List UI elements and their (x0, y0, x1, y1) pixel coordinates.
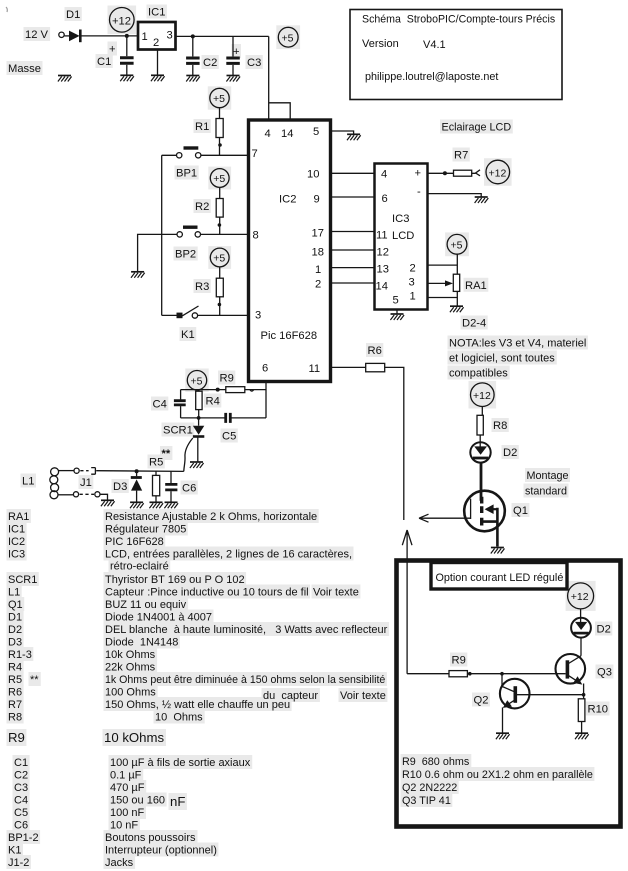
resistor R5 (155, 471, 157, 475)
diode D3 (136, 471, 138, 476)
wire sensor line (96, 470, 184, 473)
svg-text:4: 4 (381, 169, 387, 181)
svg-text:R6: R6 (368, 345, 382, 357)
svg-text:+: + (415, 168, 422, 180)
ground (149, 502, 163, 508)
node +12 (471, 383, 495, 407)
regulator IC1 (138, 22, 176, 50)
svg-text:Version: Version (362, 38, 399, 50)
wire R9 to pin6 line (245, 389, 266, 391)
svg-text:DEL blanche à haute luminosit: DEL blanche à haute luminosité, 3 Watts … (105, 624, 388, 636)
svg-text:18: 18 (312, 247, 324, 259)
svg-text:J1: J1 (80, 477, 92, 489)
ground (130, 502, 144, 508)
svg-text:R4: R4 (206, 396, 220, 408)
svg-text:V4.1: V4.1 (423, 39, 446, 51)
svg-text:1: 1 (142, 31, 148, 43)
ground (226, 76, 240, 82)
ground (101, 500, 115, 506)
svg-text:IC1: IC1 (8, 524, 25, 536)
node +5 (R1) (210, 88, 229, 107)
node +5 (RA1) (447, 234, 467, 254)
LED D2 (571, 618, 591, 638)
svg-text:+12: +12 (489, 167, 507, 179)
svg-text:et logiciel, sont toutes: et logiciel, sont toutes (449, 353, 555, 365)
OPTION BOX (397, 561, 621, 827)
ground (450, 306, 464, 312)
svg-text:1: 1 (410, 291, 416, 303)
jack J1 (58, 470, 74, 472)
svg-text:Diode 1N4148: Diode 1N4148 (105, 637, 178, 649)
wire R6 down to arrows (385, 367, 404, 520)
svg-text:PIC 16F628: PIC 16F628 (105, 536, 164, 548)
wire (64, 35, 69, 37)
svg-text:12: 12 (377, 247, 389, 259)
svg-text:R2: R2 (195, 201, 209, 213)
svg-text:Jacks: Jacks (105, 857, 134, 869)
PIC microcontroller IC2 (249, 120, 361, 382)
svg-text:Voir texte: Voir texte (313, 587, 359, 599)
wire IC3.2 to RA1 top (428, 254, 458, 274)
svg-text:D2: D2 (503, 447, 517, 459)
node +12 (486, 160, 510, 184)
svg-text:compatibles: compatibles (449, 368, 508, 380)
STANDARD LED DRIVER (464, 383, 568, 554)
svg-text:IC2: IC2 (279, 194, 296, 206)
svg-text:Schéma StroboPIC/Compte-tours: Schéma StroboPIC/Compte-tours Précis (362, 14, 555, 26)
svg-text:3: 3 (167, 30, 173, 42)
svg-text:SCR1: SCR1 (8, 574, 37, 586)
svg-text:D2: D2 (8, 624, 22, 636)
wire Q2 collector (501, 674, 503, 687)
svg-text:+5: +5 (213, 93, 225, 105)
svg-text:Q3: Q3 (597, 667, 612, 679)
svg-text:D2: D2 (597, 624, 611, 636)
push-button BP1 (177, 153, 182, 158)
wire arrow up from option (402, 530, 412, 674)
svg-text:+: + (109, 44, 116, 56)
wire R2 to pin8 (219, 217, 221, 234)
svg-text:Q1: Q1 (513, 505, 528, 517)
svg-text:R7: R7 (8, 699, 22, 711)
svg-text:3: 3 (409, 277, 415, 289)
ground (496, 733, 510, 739)
svg-text:0.1 µF: 0.1 µF (110, 770, 142, 782)
svg-text:D2-4: D2-4 (462, 318, 486, 330)
svg-text:9: 9 (314, 194, 320, 206)
svg-text:Interrupteur (optionnel): Interrupteur (optionnel) (105, 845, 217, 857)
svg-text:BUZ 11 ou equiv: BUZ 11 ou equiv (105, 599, 187, 611)
wire R1 to pin7 (219, 138, 221, 156)
ground (151, 75, 165, 81)
svg-text:+12: +12 (112, 15, 131, 27)
capacitor C6 (170, 471, 172, 483)
wire IC1 pin2 to ground (157, 50, 159, 75)
svg-text:IC3: IC3 (392, 213, 409, 225)
svg-text:Voir texte: Voir texte (340, 690, 386, 702)
ground (190, 462, 204, 468)
wire +12 to D2 (580, 609, 582, 622)
svg-text:Q3 TIP 41: Q3 TIP 41 (402, 795, 451, 807)
capacitor C5 (226, 413, 231, 423)
svg-text:Masse: Masse (8, 63, 41, 75)
svg-text:C5: C5 (222, 431, 236, 443)
svg-text:2: 2 (315, 279, 321, 291)
svg-text:Montage: Montage (527, 470, 569, 482)
svg-text:6: 6 (382, 193, 388, 205)
svg-text:L1: L1 (8, 587, 20, 599)
wire backlight - to ground (428, 194, 482, 197)
svg-text:R9 680 ohms: R9 680 ohms (402, 756, 470, 768)
svg-text:C1: C1 (97, 56, 111, 68)
svg-text:7: 7 (252, 148, 258, 160)
MIDDLE SECTION (22, 345, 471, 674)
ground (58, 76, 72, 82)
svg-text:22k Ohms: 22k Ohms (105, 662, 156, 674)
ground (131, 272, 145, 278)
title frame (431, 563, 567, 590)
svg-text:14: 14 (281, 128, 293, 140)
wire pin3 (162, 314, 248, 316)
svg-text:5: 5 (313, 126, 319, 138)
svg-text:philippe.loutrel@laposte.net: philippe.loutrel@laposte.net (365, 71, 498, 83)
svg-text:R5: R5 (8, 674, 22, 686)
capacitor C3 (232, 36, 234, 56)
resistor R6 (366, 363, 385, 371)
svg-text:rétro-eclairé: rétro-eclairé (110, 561, 169, 573)
resistor R3 (219, 267, 221, 278)
wire pin6 down (265, 382, 267, 418)
svg-text:1: 1 (315, 264, 321, 276)
svg-text:IC3: IC3 (8, 549, 25, 561)
svg-text:+5: +5 (282, 32, 294, 44)
node +5 (R2) (210, 169, 229, 188)
resistor R10 (578, 699, 585, 722)
wire +5 rail (176, 35, 269, 37)
svg-text:SCR1: SCR1 (163, 425, 193, 437)
wire IC2.2 to IC3.14 (331, 282, 375, 284)
svg-text:K1: K1 (181, 329, 195, 341)
svg-text:3: 3 (255, 310, 261, 322)
svg-text:150 Ohms, ½ watt elle chauffe: 150 Ohms, ½ watt elle chauffe un peu (105, 699, 290, 711)
svg-text:+: + (233, 46, 240, 58)
wire IC2.11 to R6 (331, 366, 366, 368)
svg-text:Régulateur 7805: Régulateur 7805 (105, 524, 186, 536)
svg-text:NOTA:les V3 et V4, materiel: NOTA:les V3 et V4, materiel (449, 338, 586, 350)
svg-text:D1: D1 (66, 9, 80, 21)
svg-text:-: - (417, 186, 421, 198)
ground (390, 314, 404, 320)
svg-text:standard: standard (525, 486, 567, 498)
svg-text:R10 0.6 ohm ou 2X1.2 ohm en pa: R10 0.6 ohm ou 2X1.2 ohm en parallèle (402, 769, 593, 781)
wire +5 down to IC2 pins 4/14 (269, 36, 291, 119)
svg-text:R10: R10 (588, 704, 609, 716)
LCD module IC3 (331, 122, 587, 380)
wire IC3.5 to ground (396, 310, 398, 314)
wire left rail (161, 155, 163, 315)
node +12 (568, 583, 594, 609)
svg-text:C2: C2 (203, 57, 217, 69)
svg-text:C4: C4 (153, 399, 167, 411)
transistor Q3 (556, 654, 586, 684)
wire backlight + (428, 172, 454, 174)
svg-text:R4: R4 (8, 662, 22, 674)
svg-text:10 kOhms: 10 kOhms (104, 730, 165, 745)
svg-text:R1: R1 (195, 121, 209, 133)
wire IC2.1 to IC3.13 (331, 267, 375, 269)
wire R8 to D2 (479, 435, 481, 447)
wire R9 to base (467, 673, 565, 675)
svg-text:Pic 16F628: Pic 16F628 (261, 330, 318, 342)
svg-text:100 Ohms: 100 Ohms (105, 687, 156, 699)
wire arrow to Q1 gate (419, 514, 471, 522)
thyristor SCR1 (198, 418, 200, 426)
svg-text:150 ou 160: 150 ou 160 (110, 795, 165, 807)
svg-text:Q1: Q1 (8, 599, 23, 611)
svg-text:2: 2 (153, 37, 159, 49)
svg-text:D1: D1 (8, 612, 22, 624)
node +5 (R3) (210, 248, 229, 267)
wire pin7 (162, 154, 248, 156)
wire IC2.17 to IC3.11 (331, 231, 375, 233)
svg-text:**: ** (30, 674, 39, 686)
wire SCR1 gate (184, 438, 193, 471)
svg-text:C2: C2 (14, 770, 28, 782)
wire IC2.18 to IC3.12 (331, 249, 375, 251)
wire bottom loop (181, 417, 266, 419)
svg-text:D3: D3 (113, 481, 127, 493)
svg-text:Q2: Q2 (474, 695, 489, 707)
svg-text:+5: +5 (213, 173, 225, 185)
wire junction (191, 34, 195, 38)
wire Q2 base to emitter of Q3 (517, 694, 584, 696)
svg-text:C5: C5 (14, 807, 28, 819)
ground (575, 733, 589, 739)
svg-text:6: 6 (262, 363, 268, 375)
svg-text:17: 17 (312, 228, 324, 240)
svg-text:10 Ohms: 10 Ohms (155, 712, 203, 724)
svg-text:5: 5 (393, 295, 399, 307)
svg-text:R6: R6 (8, 687, 22, 699)
wire (472, 170, 480, 176)
svg-text:10k Ohms: 10k Ohms (105, 649, 156, 661)
resistor R9 (226, 387, 245, 393)
svg-text:13: 13 (377, 264, 389, 276)
wire R3 to pin3 (219, 297, 221, 316)
svg-text:Boutons poussoirs: Boutons poussoirs (105, 832, 196, 844)
ground (120, 75, 134, 81)
svg-text:C4: C4 (14, 795, 28, 807)
svg-text:C3: C3 (14, 782, 28, 794)
capacitor C1 (126, 36, 128, 56)
diode D1 (69, 31, 80, 42)
resistor R8 (481, 407, 483, 416)
svg-text:BP2: BP2 (175, 249, 196, 261)
svg-text:R3: R3 (195, 281, 209, 293)
input terminal (59, 32, 64, 37)
svg-text:+5: +5 (191, 375, 203, 387)
node +5 (278, 27, 298, 47)
title box (350, 10, 562, 100)
resistor R9 (449, 671, 467, 677)
wire IC3.3 wiper arrow (428, 282, 448, 284)
svg-text:11: 11 (309, 363, 321, 375)
svg-text:BP1-2: BP1-2 (8, 832, 39, 844)
svg-text:+5: +5 (213, 253, 225, 265)
svg-text:C3: C3 (247, 57, 261, 69)
transistor Q2 (500, 679, 530, 709)
push-button BP2 (177, 232, 182, 237)
svg-text:RA1: RA1 (8, 511, 29, 523)
svg-text:C1: C1 (14, 757, 28, 769)
svg-text:Thyristor BT 169 ou P O 102: Thyristor BT 169 ou P O 102 (105, 574, 245, 586)
wire to ground (138, 234, 162, 271)
svg-text:Diode 1N4001 à 4007: Diode 1N4001 à 4007 (105, 612, 212, 624)
svg-text:R8: R8 (493, 420, 507, 432)
ground (491, 548, 505, 554)
potentiometer RA1 (453, 274, 459, 291)
switch K1 (177, 313, 183, 319)
wire IC2.9 to IC3.6 (331, 196, 375, 198)
ground (164, 502, 178, 508)
svg-text:C6: C6 (182, 483, 196, 495)
svg-text:470 µF: 470 µF (110, 782, 145, 794)
wire pin8 (162, 233, 248, 235)
svg-text:1k Ohms peut être diminuée à 1: 1k Ohms peut être diminuée à 150 ohms se… (105, 674, 385, 686)
svg-text:2: 2 (410, 263, 416, 275)
svg-text:J1-2: J1-2 (8, 857, 29, 869)
svg-text:+5: +5 (451, 240, 463, 252)
svg-text:+12: +12 (571, 591, 589, 603)
svg-text:C6: C6 (14, 820, 28, 832)
node +12 (110, 7, 135, 32)
Q2 emitter (506, 700, 515, 706)
svg-text:BP1: BP1 (176, 168, 197, 180)
node +5 (R4) (187, 371, 206, 390)
svg-text:R9: R9 (220, 373, 234, 385)
transistor Q1 (464, 491, 505, 532)
wire Q3 emitter to R10 (583, 684, 585, 699)
wire (81, 35, 138, 37)
svg-text:R8: R8 (8, 712, 22, 724)
frame (397, 561, 621, 827)
svg-text:Q2 2N2222: Q2 2N2222 (402, 782, 457, 794)
svg-text:K1: K1 (8, 845, 21, 857)
svg-text:14: 14 (376, 281, 388, 293)
svg-text:R9: R9 (8, 730, 25, 745)
svg-text:D3: D3 (8, 637, 22, 649)
svg-text:IC1: IC1 (148, 7, 165, 19)
wire D2 to Q1 drain (480, 463, 483, 501)
resistor R2 (219, 187, 221, 198)
wire +5 rail to R9 (181, 389, 226, 391)
svg-text:11: 11 (376, 230, 388, 242)
svg-text:R7: R7 (454, 150, 468, 162)
wire junction (125, 34, 129, 38)
TOP SECTION (6, 7, 562, 120)
svg-text:4: 4 (265, 128, 271, 140)
ground (186, 76, 200, 82)
svg-text:L1: L1 (22, 476, 34, 488)
svg-text:Option courant LED régulé: Option courant LED régulé (436, 572, 564, 584)
ground (475, 197, 489, 203)
COMPONENT LIST (8, 511, 388, 869)
resistor R1 (219, 108, 221, 119)
svg-text:Resistance Ajustable 2 k Ohms,: Resistance Ajustable 2 k Ohms, horizonta… (105, 511, 317, 523)
LEFT COLUMN (131, 88, 248, 341)
svg-text:10: 10 (307, 169, 319, 181)
capacitor C4 (180, 390, 182, 400)
svg-text:+12: +12 (473, 390, 491, 402)
resistor R7 (454, 170, 472, 176)
wire D2 to Q3 collector (580, 638, 582, 656)
svg-text:Capteur :Pince inductive ou 10: Capteur :Pince inductive ou 10 tours de … (105, 587, 309, 599)
svg-text:LCD: LCD (392, 230, 414, 242)
capacitor C2 (192, 36, 194, 56)
wire IC3.1 and RA1 bottom to ground (428, 291, 458, 305)
resistor R4 (198, 390, 200, 392)
LED D2 (470, 442, 490, 462)
svg-text:100 nF: 100 nF (110, 807, 145, 819)
wire IC2.10 to IC3.4 (331, 172, 375, 174)
svg-text:**: ** (162, 448, 171, 460)
svg-text:12 V: 12 V (25, 29, 49, 41)
svg-text:RA1: RA1 (465, 280, 487, 292)
ground (347, 134, 361, 140)
svg-text:Eclairage LCD: Eclairage LCD (442, 122, 512, 134)
svg-text:R9: R9 (452, 655, 466, 667)
svg-text:R1-3: R1-3 (8, 649, 32, 661)
svg-text:LCD, entrées parallèles, 2 lig: LCD, entrées parallèles, 2 lignes de 16 … (105, 549, 352, 561)
svg-text:IC2: IC2 (8, 536, 25, 548)
svg-text:10 nF: 10 nF (110, 820, 138, 832)
svg-text:8: 8 (253, 230, 259, 242)
wire R9 line to Q3 base (407, 673, 449, 675)
svg-text:100 µF à fils de sortie axiaux: 100 µF à fils de sortie axiaux (110, 757, 251, 769)
wire pin5 to ground (331, 131, 354, 134)
svg-text:nF: nF (170, 794, 185, 809)
